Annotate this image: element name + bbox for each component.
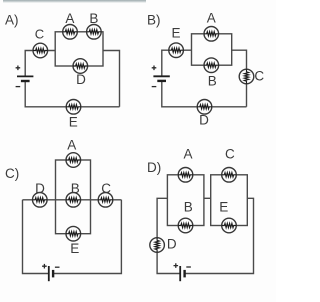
lamp D (vertical) (150, 238, 165, 253)
wire: battery top up and right to parallel box (162, 50, 192, 76)
wire: left link and left outer down through lamp D (157, 198, 180, 273)
lamp C (98, 193, 113, 208)
wire: parallel box (A top, B bottom) (192, 34, 232, 65)
svg-text:E: E (69, 114, 78, 129)
svg-text:E: E (219, 199, 228, 214)
svg-text:B: B (208, 74, 217, 89)
svg-text:B: B (184, 199, 193, 214)
battery (circuit B) short plate (157, 80, 166, 82)
svg-text:C: C (225, 146, 235, 161)
lamp B (204, 58, 219, 73)
lamp D (73, 59, 88, 74)
wire: right link and right outer down to battery (185, 198, 254, 273)
wire: bottom return to battery (162, 81, 247, 107)
svg-text:B): B) (147, 12, 161, 27)
wire: middle link between boxes (204, 197, 211, 199)
lamp D (33, 193, 48, 208)
battery - sign (186, 266, 191, 268)
svg-text:B: B (89, 11, 98, 26)
svg-text:C: C (101, 181, 111, 196)
svg-text:C: C (35, 27, 44, 42)
battery (circuit B) long plate (153, 75, 169, 77)
wire: outer loop down to battery (23, 200, 122, 274)
wire: main horizontal with D,B,C (23, 199, 122, 201)
wire: box 2 (C top, E bottom) (211, 175, 248, 226)
svg-text:C: C (254, 69, 264, 84)
lamp B (87, 25, 102, 40)
lamp C (33, 43, 48, 58)
battery - sign (152, 86, 157, 88)
svg-text:A: A (67, 137, 76, 152)
lamp B (66, 193, 81, 208)
svg-text:A: A (65, 11, 74, 26)
lamp A (204, 27, 219, 42)
wire: box 1 (A top, B bottom) (167, 175, 204, 226)
lamp E (66, 226, 81, 241)
svg-text:E: E (70, 241, 79, 256)
battery (circuit D) long plate (179, 266, 181, 281)
svg-text:D): D) (147, 160, 161, 175)
lamp A (66, 153, 81, 168)
battery (circuit A) short plate (21, 80, 30, 82)
top teal border line (3, 0, 146, 3)
battery (circuit C) short plate (52, 270, 54, 278)
battery - sign (16, 86, 21, 88)
lamp E (169, 43, 184, 58)
battery + sign (42, 264, 47, 269)
wire: box exit right and down through lamp C (232, 50, 247, 107)
svg-text:E: E (171, 25, 180, 40)
lamp C (222, 168, 237, 183)
lamp D (197, 100, 212, 115)
wire: parallel box (A/B top branch, D bottom branch) (55, 32, 103, 66)
battery + sign (16, 66, 21, 71)
svg-text:D: D (76, 72, 86, 87)
svg-text:D: D (35, 181, 45, 196)
lamp A (63, 25, 78, 40)
battery (circuit C) long plate (48, 266, 50, 281)
lamp E (66, 100, 81, 115)
wire: inner box with A top, E bottom (56, 160, 91, 234)
wire: battery top up and right to parallel box (25, 51, 55, 77)
svg-text:A: A (207, 10, 216, 25)
battery (circuit A) long plate (17, 75, 33, 77)
svg-text:D: D (167, 237, 177, 252)
battery (circuit D) short plate (183, 270, 185, 278)
lamp B (178, 218, 193, 233)
wire: box exit right and down (103, 51, 120, 107)
battery + sign (174, 263, 179, 268)
svg-text:C): C) (5, 166, 19, 181)
lamp A (178, 168, 193, 183)
svg-text:D: D (199, 113, 209, 128)
lamp C (vertical) (239, 69, 254, 84)
svg-text:A: A (183, 146, 192, 161)
svg-text:A): A) (5, 12, 19, 27)
lamp E (222, 218, 237, 233)
battery + sign (152, 66, 157, 71)
wire: bottom return to battery (25, 81, 119, 107)
svg-text:B: B (71, 181, 80, 196)
battery - sign (55, 266, 60, 268)
